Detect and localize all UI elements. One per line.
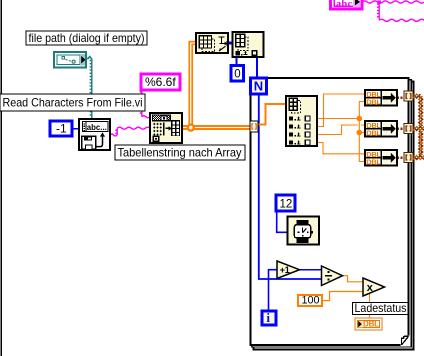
wire: format string %6.6f to Tabellenstring <box>140 90 142 117</box>
wire: 2D array junction to loop tunnel <box>191 125 250 127</box>
label: Ladestatus <box>353 303 409 315</box>
subVI: Read Characters From File.vi icon <box>79 119 110 150</box>
wire: cluster array from tunnel 3 <box>413 156 424 160</box>
svg-text:12: 12 <box>280 198 293 210</box>
function: Index Array icon (top) <box>233 32 264 57</box>
tunnel: bundle 2 output (auto-indexing) <box>404 124 413 134</box>
svg-text:DBL: DBL <box>363 320 379 329</box>
wire: chain down to Bundle 2 / Bundle 3 lower inputs <box>359 119 365 133</box>
wire: file path (teal path wire) <box>86 57 92 59</box>
wire: divide output to multiply <box>343 276 364 282</box>
wire junction dot 1 <box>357 116 363 122</box>
svg-text:DBL: DBL <box>366 158 381 167</box>
string control abc (clipped at top) <box>331 0 363 9</box>
svg-text:file path (dialog if empty): file path (dialog if empty) <box>29 32 145 45</box>
wire: chain up to Bundle 1 lower input <box>359 102 365 119</box>
indicator: Ladestatus DBL terminal <box>355 318 382 330</box>
wire: element 2 to Bundle 2 upper input (gap at crossing) <box>317 125 358 135</box>
wire: -1 to Read Characters <box>72 128 79 130</box>
tunnel: 2D array auto-indexing input <box>250 121 258 132</box>
wire junction dot 2 <box>357 130 363 136</box>
index glyph row 1 <box>289 125 293 129</box>
for loop frame (front) <box>251 78 409 345</box>
wire: size array to Index Array <box>227 42 233 45</box>
wire: 2D array Tabellenstring output to junction <box>182 125 191 127</box>
svg-text:%6.6f: %6.6f <box>145 75 176 89</box>
svg-text:0: 0 <box>234 69 240 81</box>
svg-text:Ladestatus: Ladestatus <box>355 302 407 315</box>
wire: i to increment <box>269 270 278 311</box>
svg-text:N: N <box>254 78 263 93</box>
path control terminal <box>54 52 86 68</box>
window left border <box>0 0 2 356</box>
constant 0 <box>231 66 244 82</box>
wire: Bundle 3 cluster output to tunnel <box>397 157 404 159</box>
svg-text:x: x <box>367 282 374 294</box>
bundle node 1 <box>365 90 397 106</box>
label: file path (dialog if empty) <box>26 31 147 45</box>
svg-text:abc: abc <box>336 0 353 10</box>
wire: Bundle 1 cluster output to tunnel <box>397 97 404 99</box>
constant 100 <box>298 295 322 306</box>
wire: increment output to divide <box>300 269 322 271</box>
wire: row count to N terminal <box>256 57 258 78</box>
svg-text:DBL: DBL <box>366 129 381 138</box>
junction (2D array wire) <box>187 123 195 131</box>
svg-text:100: 100 <box>302 295 320 307</box>
bundle node 2 <box>365 121 397 137</box>
bundle node 3 <box>365 150 397 166</box>
function: multiply <box>363 278 385 296</box>
svg-text:DBL: DBL <box>366 98 381 107</box>
function: Array Size icon <box>196 33 228 53</box>
svg-text:-1: -1 <box>56 121 67 135</box>
for loop frame folded corner <box>401 336 410 347</box>
for loop stacked frame 2 (middle) <box>252 80 412 347</box>
function: Wait ms (clock) icon <box>288 217 320 245</box>
label: Tabellenstring nach Array <box>115 145 245 160</box>
wire: 100 to multiply <box>322 292 363 301</box>
for loop iteration terminal i <box>262 311 276 325</box>
for loop stacked frame 3 (back) <box>254 82 414 350</box>
wire: string Read Characters to Tabellenstring <box>110 134 117 136</box>
wire: multiply output to Ladestatus indicator <box>369 293 371 319</box>
function: Index Array expanded (4 outputs) <box>286 96 317 146</box>
wire: 12 to Wait ms <box>277 210 288 233</box>
wire: indexed row to Index Array <box>258 104 286 125</box>
index glyph row 3 <box>289 141 293 145</box>
wire: N count down to divide input <box>259 94 322 279</box>
for loop count terminal N <box>251 78 267 94</box>
wire: cluster array from tunnel 1 <box>413 94 421 98</box>
index glyph row 0 <box>289 117 293 121</box>
wire: element 1 to Bundle 1 upper input <box>317 94 365 127</box>
wire: 0 constant to Index Array <box>236 57 238 66</box>
constant 12 <box>276 195 295 211</box>
wire: cluster array from tunnel 2 <box>413 127 424 131</box>
constant -1 <box>50 121 72 136</box>
function: increment +1 <box>277 261 300 279</box>
function: divide <box>322 266 343 286</box>
function: Tabellenstring nach Array icon <box>150 113 182 143</box>
wire: Bundle 2 cluster output to tunnel <box>397 128 404 130</box>
tunnel: bundle 1 output (auto-indexing) <box>404 91 413 101</box>
svg-text:i: i <box>267 311 271 325</box>
index glyph row 2 <box>289 133 293 137</box>
svg-text:abc...: abc... <box>87 123 107 132</box>
constant %6.6f (format string) <box>141 74 180 90</box>
svg-text:Read Characters From File.vi: Read Characters From File.vi <box>3 96 143 109</box>
wire: element 3 to Bundle 3 upper input <box>317 143 365 154</box>
svg-text:Tabellenstring nach Array: Tabellenstring nach Array <box>118 146 242 159</box>
svg-text:+1: +1 <box>280 265 290 275</box>
label: Read Characters From File.vi <box>0 94 145 111</box>
wire: string branch to right edge <box>379 19 424 21</box>
tunnel: bundle 3 output (auto-indexing) <box>404 153 413 163</box>
wire: 2D array junction up to Array Size <box>189 42 196 128</box>
wire: string branch down <box>377 2 379 20</box>
wire: string from abc control <box>362 1 424 3</box>
wire: element 0 to junction chain <box>317 118 359 120</box>
